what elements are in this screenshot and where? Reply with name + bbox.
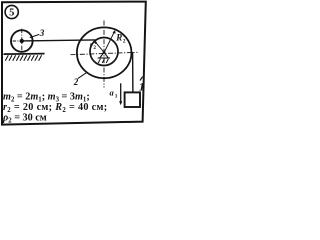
svg-text:1: 1	[115, 93, 118, 99]
svg-text:2: 2	[93, 45, 96, 51]
svg-text:r: r	[90, 40, 93, 49]
svg-text:2: 2	[123, 38, 126, 44]
svg-text:3: 3	[39, 28, 45, 38]
svg-text:R: R	[115, 33, 122, 43]
svg-text:1: 1	[139, 82, 145, 94]
svg-text:5: 5	[9, 7, 14, 18]
